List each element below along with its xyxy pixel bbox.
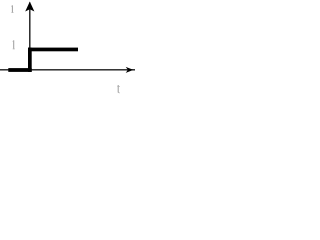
y axis xyxy=(29,3,31,71)
x axis xyxy=(0,69,135,71)
step trace: zero-level segment xyxy=(8,68,31,72)
label 1 (upper, left of y axis) xyxy=(11,5,13,13)
step trace: one-level segment xyxy=(28,48,78,52)
y axis arrowhead xyxy=(25,2,34,12)
x axis arrowhead xyxy=(126,67,134,73)
label 1 (at step level) xyxy=(13,40,15,49)
label t (time axis) xyxy=(117,85,120,93)
step trace: jump at t=0 xyxy=(28,48,32,72)
